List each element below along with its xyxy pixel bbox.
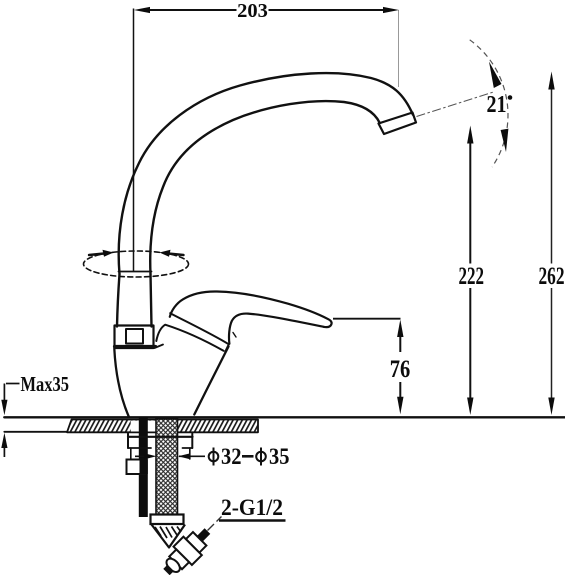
escutcheon plate bbox=[67, 420, 258, 433]
rotation arrowheads bbox=[103, 250, 114, 257]
spout inner curve bbox=[150, 101, 379, 274]
body right edge bbox=[194, 347, 228, 415]
swivel joint line bbox=[119, 271, 152, 273]
handle lower-front wedge line bbox=[170, 313, 229, 352]
svg-text:76: 76 bbox=[390, 356, 411, 383]
dimension 262 bbox=[551, 86, 553, 401]
dimension 21 degrees bbox=[417, 92, 496, 117]
column right edge bbox=[151, 274, 152, 327]
svg-text:35: 35 bbox=[269, 444, 290, 469]
countertop line bbox=[4, 416, 565, 418]
body dome lower line bbox=[156, 325, 223, 351]
bracket corner bevel bbox=[155, 345, 164, 349]
dimension 203 bbox=[134, 9, 399, 273]
hose nut band bbox=[151, 515, 184, 525]
dimension 222 bbox=[469, 140, 471, 401]
mounting bracket bbox=[115, 326, 154, 349]
supply pipe (black bar) bbox=[139, 417, 148, 517]
rotation arrow right bbox=[168, 254, 184, 256]
svg-text:2-G1/2: 2-G1/2 bbox=[221, 495, 283, 520]
svg-text:203: 203 bbox=[237, 0, 268, 22]
dimension phi32-phi35 bbox=[135, 455, 205, 457]
locknut bbox=[128, 436, 193, 438]
dimension Max35 bbox=[4, 384, 19, 458]
svg-text:32: 32 bbox=[221, 444, 242, 469]
handle underside bbox=[229, 314, 324, 344]
svg-text:21: 21 bbox=[487, 92, 507, 118]
svg-text:262: 262 bbox=[539, 263, 565, 290]
counter bottom extension line bbox=[4, 431, 67, 433]
rotation arrow left bbox=[89, 254, 104, 256]
hose leader dashes bbox=[208, 517, 222, 531]
rotation ellipse (dashed) bbox=[84, 251, 189, 277]
spout outlet cap bbox=[379, 113, 417, 135]
dimension 76 bbox=[333, 318, 401, 320]
funnel V bbox=[152, 525, 186, 548]
handle outline bbox=[170, 291, 332, 327]
spout outer curve bbox=[119, 73, 413, 274]
bracket inner rectangle bbox=[126, 329, 143, 344]
svg-text:222: 222 bbox=[459, 263, 485, 290]
angled hose fitting bbox=[157, 522, 216, 575]
handle neck tick bbox=[233, 333, 236, 338]
plate hole around pipe bbox=[131, 421, 157, 432]
body left edge bbox=[114, 349, 128, 417]
threaded shank (cross-hatched) bbox=[156, 419, 178, 515]
column left edge bbox=[117, 274, 120, 327]
svg-text:Max35: Max35 bbox=[21, 372, 70, 396]
washer box bbox=[127, 460, 146, 475]
valve body side lines bbox=[130, 448, 132, 472]
